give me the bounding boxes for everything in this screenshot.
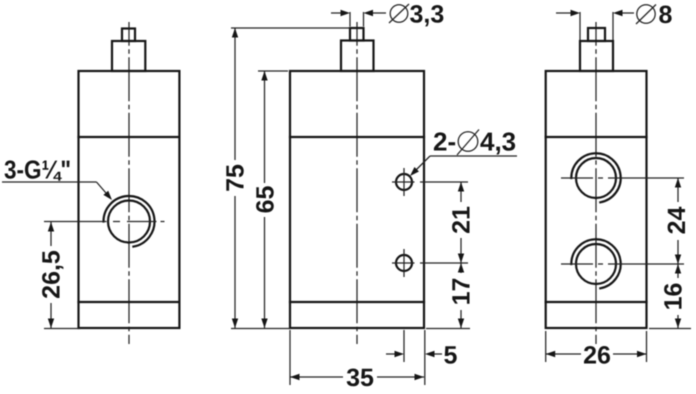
- svg-text:8: 8: [659, 1, 673, 29]
- svg-text:26,5: 26,5: [38, 250, 66, 299]
- dimension 65: [252, 71, 289, 328]
- svg-text:35: 35: [346, 364, 374, 392]
- svg-text:16: 16: [660, 283, 688, 311]
- svg-text:26: 26: [583, 342, 611, 370]
- svg-text:21: 21: [448, 206, 476, 234]
- label 3-G1/4: [2, 155, 114, 203]
- dimension 75: [222, 28, 351, 329]
- svg-text:75: 75: [222, 164, 250, 192]
- right view body: [546, 71, 647, 328]
- right view knob: [580, 28, 613, 71]
- dimension 21: [448, 182, 476, 263]
- left view knob: [112, 29, 145, 72]
- dimension 26: [546, 331, 647, 370]
- dimension 35: [290, 330, 424, 392]
- left port horizontal centerline: [44, 221, 165, 223]
- dimension diam8: [556, 1, 673, 40]
- svg-text:24: 24: [663, 207, 691, 235]
- middle view centerline: [356, 22, 358, 344]
- dimension 16: [649, 264, 691, 329]
- right view centerline: [595, 22, 597, 344]
- dimension diam3,3: [331, 1, 444, 29]
- middle view body: [290, 71, 424, 328]
- dimension 17: [426, 263, 476, 329]
- dimension 5: [386, 330, 458, 385]
- left view centerline: [128, 22, 130, 344]
- svg-text:17: 17: [448, 278, 476, 306]
- svg-text:5: 5: [444, 342, 458, 370]
- dimension 24: [663, 178, 691, 264]
- svg-text:65: 65: [252, 186, 280, 214]
- middle view knob: [341, 28, 374, 71]
- svg-text:3,3: 3,3: [410, 1, 445, 29]
- svg-text:3-G¼": 3-G¼": [4, 155, 71, 185]
- mounting hole bottom: [396, 255, 412, 271]
- svg-text:4,3: 4,3: [480, 127, 516, 157]
- left view threaded port G1/4: [104, 196, 155, 247]
- mounting hole top crosshair: [392, 168, 468, 196]
- mounting hole top: [396, 174, 412, 190]
- svg-text:2-: 2-: [433, 127, 456, 157]
- label 2-diam4,3: [408, 127, 517, 179]
- right port bottom centerline: [561, 263, 684, 265]
- mounting hole bottom crosshair: [392, 249, 468, 277]
- dimension 26,5: [38, 222, 81, 329]
- right port top: [571, 153, 620, 202]
- right port top centerline: [561, 177, 684, 179]
- left view body: [79, 71, 180, 328]
- right port bottom: [571, 239, 620, 288]
